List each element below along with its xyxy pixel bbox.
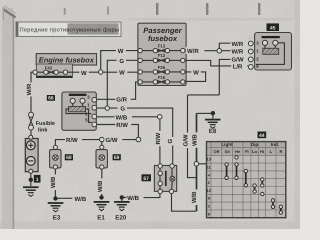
label W (engine row) xyxy=(79,69,89,77)
wire fusible link to battery xyxy=(30,130,32,135)
relay 66 xyxy=(62,92,97,130)
label G (row2) xyxy=(117,57,127,65)
tag 1 xyxy=(34,175,41,183)
tag 69 xyxy=(113,154,121,161)
fuse F16 xyxy=(138,75,185,84)
ground E20 xyxy=(114,195,130,221)
label G/W (pin2) xyxy=(230,56,248,64)
ground E8 xyxy=(205,111,221,135)
battery xyxy=(25,135,38,173)
lamp 69 stub xyxy=(101,142,103,145)
wire F36 to F16 hook xyxy=(185,72,206,82)
switch 67 tag xyxy=(142,174,152,182)
fuse F43 element xyxy=(44,70,59,74)
foglamp 69 xyxy=(96,145,107,169)
fusible link xyxy=(29,112,34,130)
wire W engine to fusebox row3 xyxy=(68,71,138,73)
label G/R xyxy=(115,96,131,104)
wire lamp 69 to ground E1 xyxy=(101,169,103,195)
wire lamp 68 to ground E3 xyxy=(54,169,56,196)
fuse F36 xyxy=(138,65,185,74)
label W (row1) xyxy=(116,47,126,55)
table 44 tag xyxy=(258,132,267,139)
foglamp 68 xyxy=(50,145,61,169)
tag 68 xyxy=(65,154,73,161)
label W/R (pin1) xyxy=(230,48,248,56)
wire W branch up to fuse F13 xyxy=(101,51,138,70)
connector circle above lamp 69 xyxy=(100,137,105,142)
G/W and L/R stems xyxy=(219,59,248,95)
connector circle at R/W drop xyxy=(136,137,141,142)
wire R/W connector down to switch 67 xyxy=(159,119,161,165)
wire battery to ground xyxy=(30,173,32,186)
connector circle on W/B wire xyxy=(157,115,162,120)
Engine fusebox label xyxy=(36,54,96,65)
label W/B rotated (E3 wire) xyxy=(50,175,59,191)
label W/R (pin3) xyxy=(230,40,248,48)
label W/B rotated (lower) xyxy=(191,190,200,206)
main W/B vertical wire xyxy=(196,113,198,211)
label R/W xyxy=(115,121,131,129)
engine fusebox terminals xyxy=(33,70,37,74)
ground E1 xyxy=(94,195,110,221)
title box: front foglamps (Russian) xyxy=(16,22,121,37)
label W/B rotated (E1 wire) xyxy=(97,179,106,195)
wire F12 to G/W L/R nets xyxy=(185,60,219,66)
label Fusible link xyxy=(36,121,55,134)
label R/W rotated xyxy=(155,131,164,146)
wire W/B to ground E8 xyxy=(197,112,212,114)
wire W/R engine fusebox to fusible link xyxy=(31,72,33,112)
wire junction to table xyxy=(199,163,207,165)
Engine fusebox F43 body xyxy=(36,64,73,78)
fuse F12 xyxy=(138,53,185,62)
label W/B rotated (upper) xyxy=(191,132,200,148)
label W (row3) xyxy=(117,69,127,77)
fuse F43 row wire xyxy=(35,71,65,73)
fuse F13 xyxy=(138,43,185,52)
wire W/B 66 pin2 to connector xyxy=(97,116,160,118)
wire G 66 pin1 right and up to fuse F12 xyxy=(97,108,173,165)
Passenger fusebox xyxy=(138,23,186,85)
foglamp feed wire row xyxy=(55,140,136,146)
relay 66 tag xyxy=(47,95,55,102)
relay 45 tag xyxy=(267,23,280,31)
ground E3 xyxy=(48,196,73,221)
label G/W (lamp row) xyxy=(104,136,122,144)
ground battery xyxy=(23,187,39,196)
G/W vertical wire xyxy=(188,95,197,178)
label W (hook) xyxy=(191,69,201,77)
junction dot battery ground xyxy=(29,178,33,182)
connector circle on G wire xyxy=(105,106,109,110)
label W/R (left) xyxy=(186,47,205,55)
connector circle W/R xyxy=(217,49,222,54)
wire 67 lower right pin to W/B net xyxy=(172,194,197,212)
label G rotated on drop to switch xyxy=(167,137,176,146)
page-edge frame strip left xyxy=(2,6,16,229)
wire R/W 66 pin5 to foglamp feed xyxy=(97,125,139,138)
label W/R (rotated) xyxy=(26,83,34,97)
switch 67 xyxy=(154,164,176,194)
faint scan smudges top xyxy=(64,3,298,39)
label G/W rotated xyxy=(182,133,191,149)
wire G/R 66 pin3 to fuse F16 xyxy=(97,82,138,99)
label G (66 output) xyxy=(118,105,128,113)
label L/R (pin5) xyxy=(231,63,247,71)
wire E20 to switch 67 xyxy=(124,196,127,198)
switch table 44 xyxy=(207,142,286,218)
branch to pin 3 xyxy=(219,43,248,48)
junction connector on W/B wire xyxy=(194,162,199,167)
label W/B xyxy=(115,113,133,121)
connector circle on W wire xyxy=(99,70,103,74)
relay 45 xyxy=(248,33,291,71)
wire W/R F13 to relay 45 xyxy=(185,50,249,52)
label R/W (lamp row) xyxy=(65,136,82,144)
